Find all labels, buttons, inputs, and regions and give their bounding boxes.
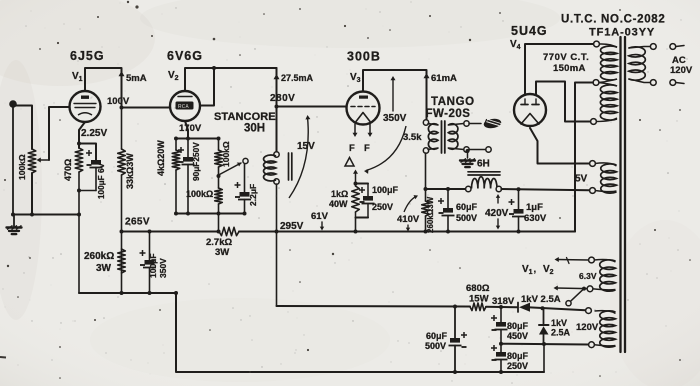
output transformer label (426, 96, 475, 120)
triode V3 300B envelope (347, 92, 380, 125)
choke 6H right terminal (496, 186, 501, 191)
V4 internal electrodes (521, 99, 539, 124)
heater V1 V2 label (522, 264, 554, 276)
svg-text:5V: 5V (575, 174, 588, 185)
wire to cathode bypass cap (79, 144, 96, 161)
350V measure label (383, 113, 407, 124)
capacitor 60uF 500V reservoir labels (425, 331, 448, 351)
svg-text:80μF: 80μF (507, 351, 529, 361)
capacitor 80uF 450V labels (507, 321, 529, 341)
420V B+ rail right (501, 189, 589, 190)
OPT secondary winding (448, 124, 464, 150)
V2 cathode network bottom wire (174, 212, 247, 216)
hum network top wire (354, 182, 369, 186)
svg-text:260kΩ3W: 260kΩ3W (426, 196, 435, 233)
mains top stub (676, 46, 684, 47)
svg-text:6V6G: 6V6G (167, 49, 203, 63)
tetrode V2 6V6G envelope (170, 91, 200, 121)
capacitor 100uF 350V (140, 232, 157, 296)
120V winding top terminal (586, 308, 592, 314)
15V measure arrow (289, 115, 310, 198)
transformer label UTC (561, 14, 666, 26)
420V B+ rail left (426, 188, 467, 190)
OPT ground symbol (460, 150, 475, 168)
choke 6H label (477, 159, 490, 170)
27.5mA current arrow (274, 73, 314, 83)
svg-text:2.25V: 2.25V (81, 128, 107, 139)
svg-text:170V: 170V (179, 123, 202, 134)
capacitor 90uF 250V (178, 139, 195, 214)
resistor 1k 40W label (329, 189, 348, 209)
120V winding coil (595, 311, 616, 348)
resistor 260k 3W label (84, 251, 114, 274)
main ground rail (120, 230, 576, 234)
svg-text:1kΩ: 1kΩ (331, 189, 348, 199)
capacitor 80uF 450V (491, 305, 508, 344)
OPT primary terminals (423, 120, 428, 153)
svg-text:6.3V: 6.3V (579, 271, 597, 281)
svg-text:F: F (349, 143, 355, 154)
OPT secondary top terminal (464, 121, 469, 126)
svg-text:100μF 6V: 100μF 6V (97, 163, 106, 199)
svg-text:150mA: 150mA (553, 63, 586, 74)
resistor 470ohm cathode (75, 148, 83, 172)
tube V4 designator (510, 39, 521, 51)
svg-text:60μF: 60μF (426, 331, 448, 341)
wire 280V to V3 grid (277, 106, 347, 108)
svg-text:30H: 30H (244, 123, 265, 135)
wire OPT primary bottom to 420V rail (424, 153, 428, 201)
rectifier V4 5U4G envelope (514, 94, 546, 126)
potentiometer wiper arrow (37, 158, 50, 163)
mains bottom stub (676, 83, 684, 84)
350V measure arrow up (391, 76, 396, 111)
diode D1 label (521, 294, 561, 305)
AC 120V label (670, 55, 693, 76)
svg-text:630V: 630V (524, 213, 547, 224)
svg-text:61V: 61V (311, 211, 329, 222)
transformer core (621, 37, 626, 352)
diode D2 label (551, 318, 571, 338)
node 170V label (179, 123, 202, 134)
capacitor 80uF 250V (491, 344, 508, 374)
resistor 33k 3W plate load (118, 108, 126, 294)
mains top terminal a (650, 44, 656, 50)
resistor 100k lower label (186, 189, 213, 199)
120V winding label (576, 322, 599, 333)
5V winding top terminal (590, 161, 596, 167)
node 318V label (492, 296, 515, 307)
input jack terminal (9, 100, 17, 214)
6.3V top terminal (589, 257, 595, 263)
wire secondary to output (469, 123, 481, 125)
choke 6H left terminal (466, 186, 471, 191)
resistor 2.7k 3W (219, 227, 239, 235)
6.3V winding bottom wire (554, 286, 587, 291)
V2 plate wire (185, 68, 277, 91)
hum node arrow (353, 170, 358, 183)
svg-text:450V: 450V (507, 331, 528, 341)
420V measure label (485, 208, 509, 219)
svg-text:15W: 15W (469, 294, 489, 305)
choke 6H core (468, 172, 500, 175)
choke 30H winding (264, 155, 276, 181)
node 100V label (107, 96, 130, 107)
svg-text:318V: 318V (492, 296, 515, 307)
svg-text:500V: 500V (425, 341, 446, 351)
svg-text:27.5mA: 27.5mA (281, 73, 314, 83)
ground symbol (7, 215, 22, 235)
6.3V winding label (579, 271, 597, 281)
wire mid psu (499, 342, 588, 346)
wire input to volume pot (13, 106, 32, 150)
resistor 680ohm 15W (470, 303, 486, 311)
svg-text:STANCORE: STANCORE (214, 111, 276, 123)
61mA current arrow (424, 73, 458, 84)
node 2.25V label (81, 128, 107, 139)
resistor 260k 3W bleeder (118, 249, 126, 295)
svg-text:2.2μF: 2.2μF (248, 184, 258, 206)
svg-text:280V: 280V (270, 93, 295, 104)
wire 680ohm to diode (486, 306, 517, 308)
switch arm (220, 163, 242, 175)
410V measure label (397, 214, 420, 225)
potentiometer VR1 100k&#937; body (28, 149, 36, 215)
wire network to rail (218, 214, 220, 232)
svg-text:295V: 295V (280, 221, 304, 232)
5V winding label (575, 174, 588, 185)
switch open contact (566, 301, 571, 306)
svg-text:350V: 350V (158, 258, 168, 278)
mains top terminal b (670, 44, 676, 50)
V3 plate wire (363, 70, 427, 120)
svg-text:350V: 350V (383, 113, 407, 124)
V4 plate 1 wire (525, 44, 593, 95)
switch arm to rectifier (571, 289, 584, 301)
svg-text:TF1A-03YY: TF1A-03YY (589, 27, 655, 39)
svg-text:500V: 500V (456, 213, 477, 223)
capacitor 100uF 350V label (148, 253, 168, 278)
mains bottom lead (629, 79, 650, 83)
V3 internal electrodes (351, 96, 375, 122)
120V winding bottom terminal (589, 342, 595, 348)
svg-text:F: F (364, 143, 370, 154)
svg-text:100V: 100V (107, 96, 130, 107)
svg-text:90μF250V: 90μF250V (191, 142, 201, 181)
61V arrow (320, 222, 324, 231)
wire cathode node (77, 142, 81, 294)
svg-text:260kΩ: 260kΩ (84, 251, 114, 262)
svg-text:60μF: 60μF (456, 202, 478, 212)
bottom left return wire (79, 291, 544, 372)
tube V1 designator (72, 71, 83, 83)
capacitor 100uF 250V labels (372, 185, 399, 212)
svg-text:3W: 3W (215, 247, 229, 258)
hum node triangle marker (345, 158, 354, 167)
diode D1 1kV 2.5A (518, 303, 530, 313)
svg-text:100kΩ: 100kΩ (186, 189, 213, 199)
choke 30H terminals (274, 152, 279, 184)
HV center tap wire (575, 83, 593, 232)
6.3V winding top wire (555, 257, 589, 264)
resistor 680ohm 15W labels (466, 283, 490, 305)
V4 cathode wire (530, 128, 590, 164)
V3 filament leads (353, 124, 373, 137)
ground bus wire (11, 213, 78, 217)
6.3V winding coil (593, 260, 616, 292)
V2 cathode wire (185, 121, 188, 139)
wire diode to 120V winding (530, 306, 586, 310)
svg-text:80μF: 80μF (507, 321, 529, 331)
HV winding label (543, 52, 589, 74)
potentiometer 100k&#937; value label (17, 154, 27, 180)
resistor 260k 3W bleeder 2 (422, 201, 430, 232)
5V winding coil (595, 163, 617, 193)
V2 internal electrodes (176, 97, 194, 111)
svg-text:40W: 40W (329, 199, 348, 209)
wire rail down to supply (276, 232, 278, 307)
capacitor 2.2uF (235, 164, 252, 214)
svg-text:100μF: 100μF (148, 253, 158, 278)
OPT secondary bottom terminal (464, 147, 469, 152)
350V curved arrow (364, 126, 406, 174)
tube V2 designator (168, 70, 179, 82)
mains bottom terminal b (670, 80, 676, 86)
420V measure arrows (496, 194, 500, 230)
tube V1 6J5G label (70, 49, 105, 63)
wire rail to 680ohm (277, 305, 471, 308)
wire wiper to V1 grid (49, 107, 70, 160)
svg-text:5mA: 5mA (126, 73, 147, 84)
node 265V label (125, 217, 150, 228)
secondary open terminal (486, 147, 491, 152)
resistor 33k 3W label (125, 153, 135, 189)
mains top lead (629, 47, 650, 49)
wire secondary bottom (466, 149, 487, 153)
V2 screen tie wire (200, 66, 216, 106)
node 295V label (280, 221, 304, 232)
tube V3 designator (350, 72, 361, 84)
svg-text:6H: 6H (477, 159, 490, 170)
choke STANCORE label (214, 111, 276, 135)
svg-text:250V: 250V (372, 202, 393, 212)
svg-text:FW-20S: FW-20S (426, 108, 471, 120)
capacitor 60uF 500V labels (456, 202, 478, 223)
resistor 4k 20W cathode (172, 139, 180, 214)
svg-text:770V C.T.: 770V C.T. (543, 52, 589, 63)
OPT 3.5k label (403, 132, 422, 143)
resistor 100k lower (215, 174, 223, 214)
capacitor 80uF 250V labels (507, 351, 529, 371)
svg-text:410V: 410V (397, 214, 420, 225)
svg-text:120V: 120V (576, 322, 599, 333)
output plug symbol (483, 118, 502, 130)
resistor 470ohm label (63, 159, 73, 181)
wire bottom rail riser (543, 344, 545, 372)
mains bottom terminal a (650, 80, 656, 86)
capacitor 1uF 630V labels (524, 202, 547, 224)
svg-text:470Ω: 470Ω (63, 159, 73, 181)
HV winding top terminal (594, 41, 600, 47)
diode D2 1kV 2.5A (539, 308, 549, 344)
capacitor 90uF 250V label (191, 142, 201, 181)
svg-text:2.5A: 2.5A (551, 328, 571, 338)
svg-text:265V: 265V (125, 217, 150, 228)
wire V2 plate to choke (275, 68, 279, 152)
svg-text:4kΩ20W: 4kΩ20W (156, 140, 166, 176)
svg-text:61mA: 61mA (431, 73, 457, 84)
choke 6H winding (472, 177, 498, 189)
svg-text:RCA: RCA (178, 104, 189, 110)
capacitor 1uF 630V (509, 187, 526, 231)
V2 cathode network top wire (174, 137, 221, 141)
svg-text:1kV: 1kV (551, 318, 567, 328)
svg-text:6J5G: 6J5G (70, 49, 105, 63)
capacitor 2.2uF label (248, 184, 258, 206)
switch contact (243, 158, 248, 163)
node 280V label (270, 93, 295, 104)
svg-text:1kV 2.5A: 1kV 2.5A (521, 294, 561, 305)
svg-text:100kΩ: 100kΩ (17, 154, 27, 180)
capacitor 100uF 6V (79, 150, 103, 191)
tube V3 300B label (347, 50, 381, 64)
HV winding bottom terminal (591, 119, 597, 125)
capacitor 60uF 500V (438, 187, 455, 232)
OPT primary winding (428, 124, 438, 150)
61V measure label (311, 211, 329, 222)
resistor 100k upper feedback (215, 139, 223, 189)
svg-text:U.T.C. NO.C-2082: U.T.C. NO.C-2082 (561, 14, 666, 26)
svg-text:,: , (534, 264, 537, 275)
svg-text:100μF: 100μF (372, 185, 399, 195)
15V measure label (297, 141, 315, 152)
capacitor 100uF 6V label (97, 163, 106, 199)
svg-text:420V: 420V (485, 208, 509, 219)
svg-text:300B: 300B (347, 50, 381, 64)
V1 internal electrodes (74, 96, 96, 116)
OPT core (442, 121, 445, 153)
tube V2 6V6G label (167, 49, 203, 63)
choke 30H core (289, 153, 292, 180)
svg-text:120V: 120V (670, 65, 693, 76)
resistor 1k 40W hum (352, 184, 360, 213)
V4 plate 2 wire (536, 82, 591, 122)
transformer label TF1A (589, 27, 655, 39)
capacitor 60uF 500V reservoir (449, 305, 468, 375)
HV winding coil (596, 44, 617, 122)
hum network bottom wire (356, 212, 369, 232)
filament F F labels (349, 143, 370, 154)
V1 plate wire (85, 68, 122, 108)
HV center tap terminal (593, 80, 599, 86)
svg-text:5U4G: 5U4G (511, 24, 548, 38)
resistor 4k 20W label (156, 140, 166, 176)
resistor 260k 3W bleeder 2 label (426, 196, 435, 233)
svg-text:3.5k: 3.5k (403, 132, 422, 143)
410V curved arrow (404, 195, 418, 231)
5V winding bottom terminal (590, 188, 596, 194)
6.3V bottom terminal (587, 286, 593, 292)
resistor 100k upper label (221, 141, 231, 167)
resistor 2.7k 3W label (206, 237, 232, 258)
capacitor 100uF 250V (359, 184, 375, 218)
svg-text:TANGO: TANGO (431, 96, 475, 108)
svg-text:3W: 3W (96, 263, 112, 274)
svg-text:15V: 15V (297, 141, 315, 152)
V1 cathode wire (79, 122, 85, 148)
svg-text:1μF: 1μF (526, 202, 543, 213)
triode V1 6J5G envelope (70, 91, 101, 122)
tube V4 5U4G label (511, 24, 548, 38)
mains winding coil (629, 47, 646, 80)
wire choke to rail (276, 184, 278, 232)
svg-text:100kΩ: 100kΩ (221, 141, 231, 167)
5mA current arrow (119, 71, 147, 84)
svg-text:250V: 250V (507, 361, 528, 371)
wire 100V to V2 grid (120, 106, 171, 110)
svg-text:680Ω: 680Ω (466, 283, 490, 294)
